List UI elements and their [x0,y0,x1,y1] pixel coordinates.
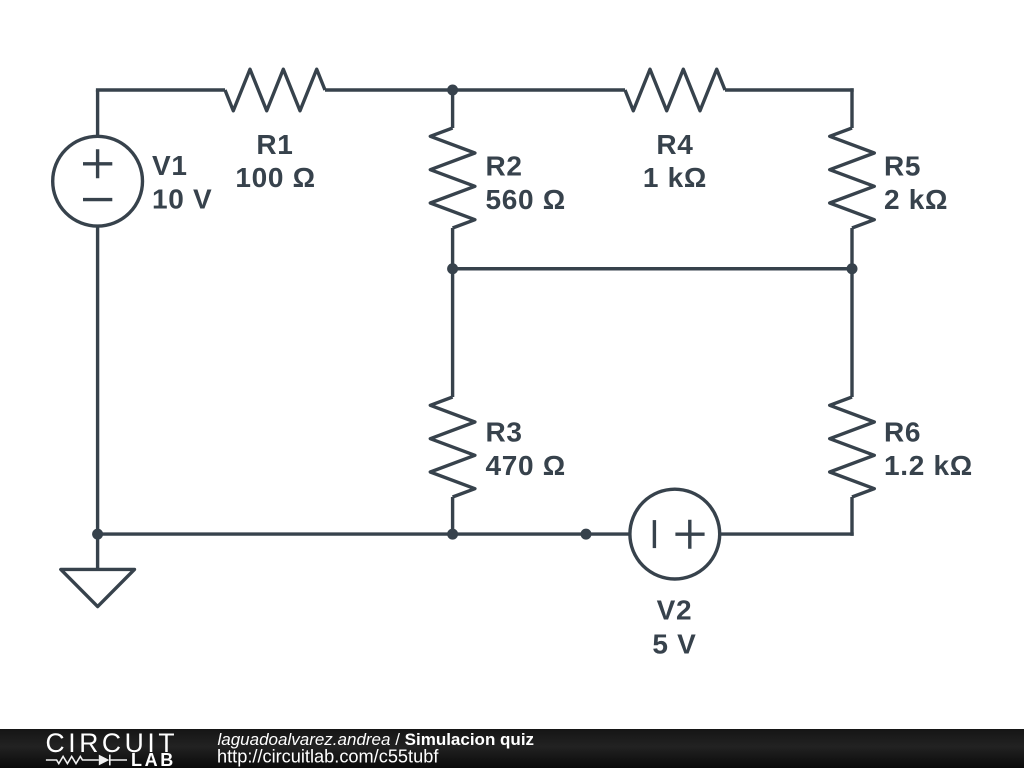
svg-text:R2: R2 [486,150,523,181]
wire R5 bottom lead [850,228,853,269]
V2 plus sign [675,520,704,549]
ground triangle [61,569,135,606]
node dot bottom center [447,529,458,540]
wire right column down to R5 [850,88,853,128]
resistor R3 [430,397,475,497]
node dot bottom left [92,529,103,540]
wire R3 bottom lead [451,497,454,534]
wire V2 right to corner [720,532,854,535]
V1 minus sign [83,198,112,201]
resistor R5 [830,128,875,228]
svg-text:1.2 kΩ: 1.2 kΩ [884,450,973,481]
svg-text:2 kΩ: 2 kΩ [884,184,948,215]
wire top rail left segment [96,88,225,91]
wire V1 top lead [96,90,99,137]
wire R2 top lead [451,90,454,128]
CircuitLab logo resistor-diode line [46,755,127,766]
wire bottom rail [98,532,586,535]
svg-text:560 Ω: 560 Ω [486,184,566,215]
svg-text:10 V: 10 V [152,184,212,215]
svg-text:1 kΩ: 1 kΩ [643,162,707,193]
wire V1 bottom lead [96,226,99,535]
svg-text:V1: V1 [152,150,188,181]
ground stub [96,534,99,569]
V1 plus sign [83,149,112,178]
resistor R6 [830,397,875,497]
node dot left of V2 [581,529,592,540]
svg-text:V2: V2 [657,595,693,626]
wire top rail right segment [725,88,854,91]
resistor R2 [430,128,475,228]
wire R6 bottom lead [850,497,853,536]
svg-text:R1: R1 [256,129,293,160]
node dot mid left [447,263,458,274]
resistor R4 [625,69,725,111]
CircuitLab logo diode triangle [99,755,110,766]
node dot top center [447,85,458,96]
svg-text:R5: R5 [884,150,921,181]
V2 minus bar [653,520,656,548]
svg-text:http://circuitlab.com/c55tubf: http://circuitlab.com/c55tubf [217,747,439,767]
wire right mid node down to R6 [850,269,853,397]
svg-text:100 Ω: 100 Ω [235,162,315,193]
wire middle horizontal rail [453,267,852,270]
wire top rail middle segment [325,88,625,91]
svg-text:5 V: 5 V [652,629,696,660]
wire V2 left lead [586,532,630,535]
wire mid node down to R3 [451,269,454,397]
svg-text:LAB: LAB [131,750,176,768]
resistor R1 [225,69,325,111]
voltage source V2 circle [630,489,720,579]
svg-text:470 Ω: 470 Ω [486,450,566,481]
voltage source V1 circle [53,136,143,226]
svg-text:R4: R4 [656,129,693,160]
node dot mid right [847,263,858,274]
wire R2 bottom lead [451,228,454,269]
svg-text:R3: R3 [486,416,523,447]
svg-text:R6: R6 [884,416,921,447]
